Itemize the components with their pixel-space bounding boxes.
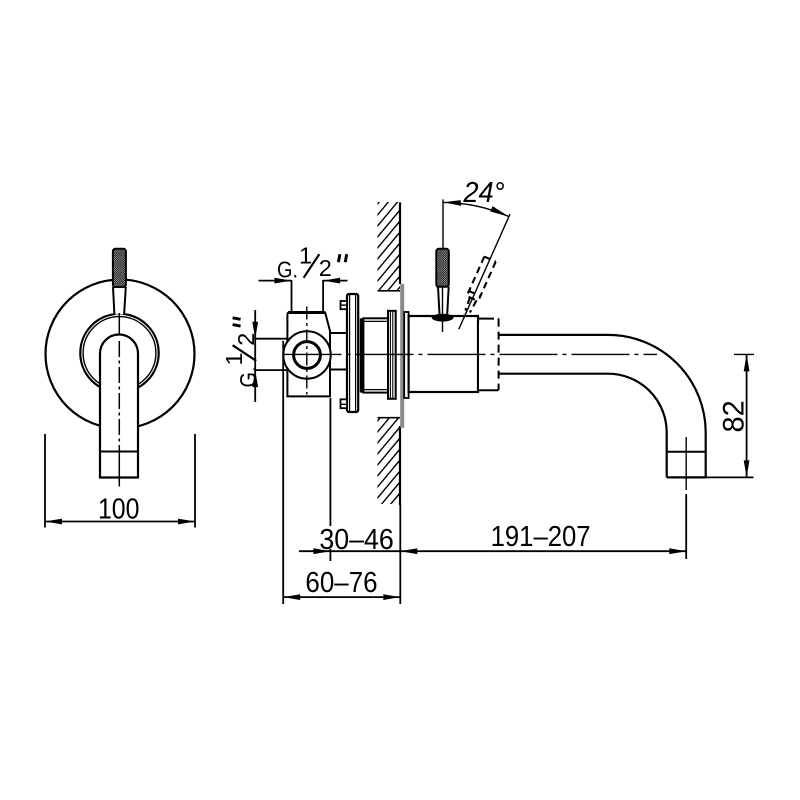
- spout tip centerline / extension: [685, 437, 687, 490]
- ext line valve front (30-46): [329, 398, 331, 526]
- dim 100 extension lines: [44, 434, 46, 528]
- aerator cap line side: [667, 451, 706, 453]
- angle arc arrow right: [490, 206, 509, 217]
- spout base ring outer: [80, 314, 158, 392]
- dim 82 arrow bottom: [744, 460, 750, 477]
- valve body: [287, 312, 330, 396]
- ext line wall face: [399, 505, 401, 604]
- tilted handle (dashed, open position): [461, 257, 496, 314]
- wall cutout top edge: [378, 290, 401, 292]
- dim 100 arrow right: [178, 519, 195, 525]
- handle stem side: [438, 287, 449, 316]
- arrow at 400 pointing right: [383, 594, 400, 600]
- rubber seal (black): [360, 318, 364, 392]
- knurl bottom line front: [113, 286, 126, 288]
- G.1/2 top dimension extension lines: [291, 280, 293, 311]
- G.1/2 top label: [277, 243, 347, 283]
- svg-text:191–207: 191–207: [491, 521, 591, 553]
- threaded sleeve: [363, 318, 388, 392]
- spout nose: [478, 319, 499, 391]
- wall cutout bottom edge: [378, 417, 401, 419]
- G.1/2 top dim leaders and arrows: [259, 280, 292, 282]
- aerator cap line front: [100, 451, 138, 453]
- svg-text:30–46: 30–46: [319, 524, 394, 556]
- svg-text:60–76: 60–76: [305, 567, 377, 599]
- arrow at 330 pointing right: [313, 548, 330, 554]
- handle axis line: [442, 287, 444, 332]
- svg-text:82: 82: [718, 400, 751, 432]
- dim 100 arrow left: [45, 519, 62, 525]
- dim line 30-46 / 191-207: [299, 550, 686, 552]
- valve neck to plate: [330, 332, 347, 334]
- dim 82 line: [746, 354, 748, 477]
- dim 82 arrow top: [744, 354, 750, 371]
- angle arc arrow left: [444, 200, 462, 206]
- svg-text:100: 100: [98, 493, 140, 525]
- valve body top edge thick: [288, 311, 325, 314]
- spout tip bottom: [667, 476, 706, 478]
- handle knurl front: [113, 249, 126, 287]
- angle arc: [443, 202, 509, 216]
- handle base fillet: [432, 314, 454, 322]
- mounting plate: [347, 294, 358, 412]
- dim 82 extension line bottom: [706, 476, 754, 478]
- wall hatch upper: [370, 165, 410, 334]
- plate inner lines: [349, 295, 351, 412]
- side port inner circle: [294, 342, 321, 369]
- centerline front vertical: [118, 313, 120, 334]
- handle knurl side: [436, 249, 449, 287]
- screw top: [341, 301, 348, 309]
- handle stem front: [113, 287, 126, 315]
- ext line valve rear (60-76): [282, 341, 284, 604]
- port centerline vertical: [306, 307, 308, 395]
- spout lower line and inner bend: [499, 374, 667, 478]
- spout upper line and outer bend: [499, 335, 706, 478]
- G.1/2 left label (rotated): [221, 318, 261, 388]
- vertical reference line for angle: [442, 199, 444, 248]
- spout base ring inner: [83, 317, 156, 390]
- mixer body side: [409, 316, 478, 392]
- dim 100 line: [45, 521, 195, 523]
- tilted handle axis line: [459, 214, 510, 329]
- wall face line lower: [399, 426, 401, 505]
- svg-text:24°: 24°: [462, 177, 504, 209]
- knurl bottom line side: [436, 286, 449, 288]
- main horizontal centerline: [284, 353, 658, 355]
- arrow at 283 pointing left: [283, 594, 300, 600]
- arrow at 686 pointing right: [669, 548, 686, 554]
- G.1/2 left dim line and arrows: [254, 310, 256, 402]
- G.1/2 left dimension extension lines: [255, 338, 288, 340]
- wall face line upper: [399, 202, 401, 284]
- locknut ring at wall: [388, 311, 396, 399]
- side port outer circle: [283, 331, 330, 378]
- arrow at 400 pointing left: [400, 548, 417, 554]
- spout tube front: [100, 335, 138, 478]
- dim line 60-76: [283, 596, 400, 598]
- wall hatch lower: [370, 382, 410, 540]
- screw bottom: [341, 399, 348, 408]
- escutcheon plate side (gray): [400, 284, 404, 428]
- collar behind body: [404, 312, 408, 398]
- escutcheon circle front: [46, 280, 195, 429]
